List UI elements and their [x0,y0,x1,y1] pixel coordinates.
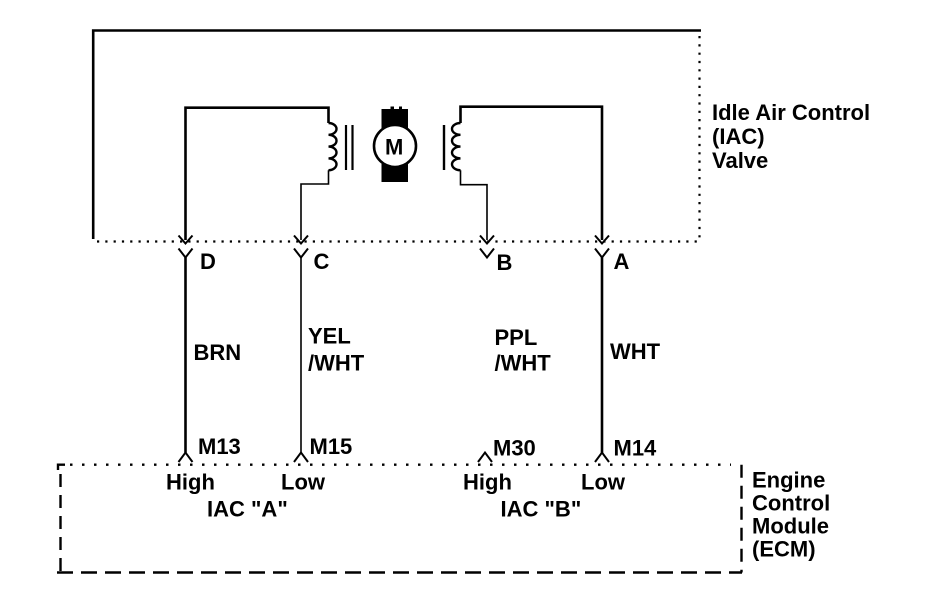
svg-text:A: A [614,249,630,274]
wire D to ECM [184,258,187,453]
ECM box top dotted border [70,464,731,466]
pin C arrow [294,236,308,244]
coil L1 core lines [345,125,347,170]
wire from coil L1 to pin C [301,170,329,240]
svg-text:Engine: Engine [752,468,825,493]
svg-text:D: D [200,249,216,274]
svg-text:IAC "A": IAC "A" [207,497,288,522]
svg-text:High: High [463,470,512,495]
svg-text:M13: M13 [198,434,241,459]
wire IAC-B coil top + wire A upper segment [461,107,603,240]
pin B connector fork [480,249,494,258]
coil L2 core line [443,125,445,170]
motor M body [374,125,416,167]
svg-text:YEL: YEL [308,324,351,349]
svg-text:M14: M14 [614,436,658,461]
svg-text:WHT: WHT [610,339,661,364]
pin D connector fork [179,249,193,258]
svg-text:M30: M30 [493,436,536,461]
pin D arrow [179,236,193,244]
wire IAC-A coil top + wire D upper segment [186,108,329,240]
svg-text:(ECM): (ECM) [752,537,816,562]
ECM pin M14 fork [595,453,609,463]
ECM box right dashed border [740,465,742,573]
svg-text:B: B [497,250,513,275]
svg-text:C: C [314,249,330,274]
IAC valve box right dotted border [698,36,700,242]
svg-text:IAC "B": IAC "B" [501,497,582,522]
svg-text:M15: M15 [310,434,353,459]
ECM box top-left corner [58,465,65,470]
motor M brush top [382,107,408,131]
motor M brush bottom [382,164,409,182]
wire from coil L2 to pin B [461,170,488,240]
IAC valve box bottom dotted border [97,240,701,242]
svg-text:Low: Low [581,470,626,495]
svg-text:Idle Air Control: Idle Air Control [712,100,870,125]
svg-text:/WHT: /WHT [308,351,365,376]
svg-text:Control: Control [752,491,830,516]
coil L2 (IAC B winding) [452,123,461,170]
svg-text:BRN: BRN [194,340,242,365]
svg-text:Low: Low [281,470,326,495]
svg-text:M: M [385,135,403,160]
ECM pin M30 fork [478,453,492,463]
svg-text:Valve: Valve [712,148,768,173]
svg-text:PPL: PPL [495,325,538,350]
svg-text:Module: Module [752,514,829,539]
pin A connector fork [595,249,609,258]
ECM pin M13 fork [179,453,193,463]
pin A arrow [595,236,609,244]
coil L1 (IAC A winding) [329,123,337,170]
ECM pin M15 fork [294,453,308,463]
pin C connector fork [294,249,308,258]
pin B arrow [480,236,494,244]
wire A to ECM [601,258,604,453]
ECM box bottom dashed border [57,571,742,573]
IAC valve box top and left solid border [93,31,701,240]
svg-text:(IAC): (IAC) [712,124,765,149]
wire C to ECM [300,258,302,453]
ECM box left dashed border [59,474,61,573]
svg-text:High: High [166,470,215,495]
svg-text:/WHT: /WHT [495,351,552,376]
